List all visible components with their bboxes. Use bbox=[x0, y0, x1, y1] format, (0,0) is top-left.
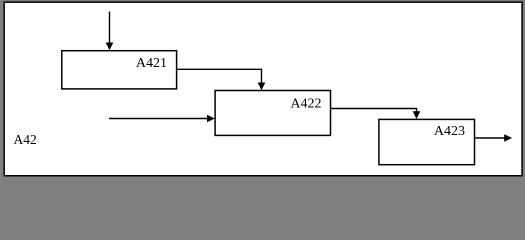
box A421 bbox=[62, 51, 177, 89]
box A423 bbox=[379, 119, 475, 164]
box A422 bbox=[215, 91, 330, 136]
wire: A421 right to A422 top bbox=[177, 69, 262, 83]
svg-text:A421: A421 bbox=[136, 56, 167, 71]
wire: A422 right to A423 top bbox=[331, 109, 417, 113]
svg-text:A423: A423 bbox=[434, 124, 465, 139]
svg-text:A42: A42 bbox=[14, 132, 37, 147]
wire: A423 right output arrow bbox=[475, 137, 506, 139]
diagram frame A42 bbox=[4, 2, 522, 176]
wire: arrow into A421 top bbox=[109, 12, 111, 44]
svg-text:A422: A422 bbox=[290, 96, 321, 111]
wire: arrow into A422 left bbox=[109, 118, 208, 120]
